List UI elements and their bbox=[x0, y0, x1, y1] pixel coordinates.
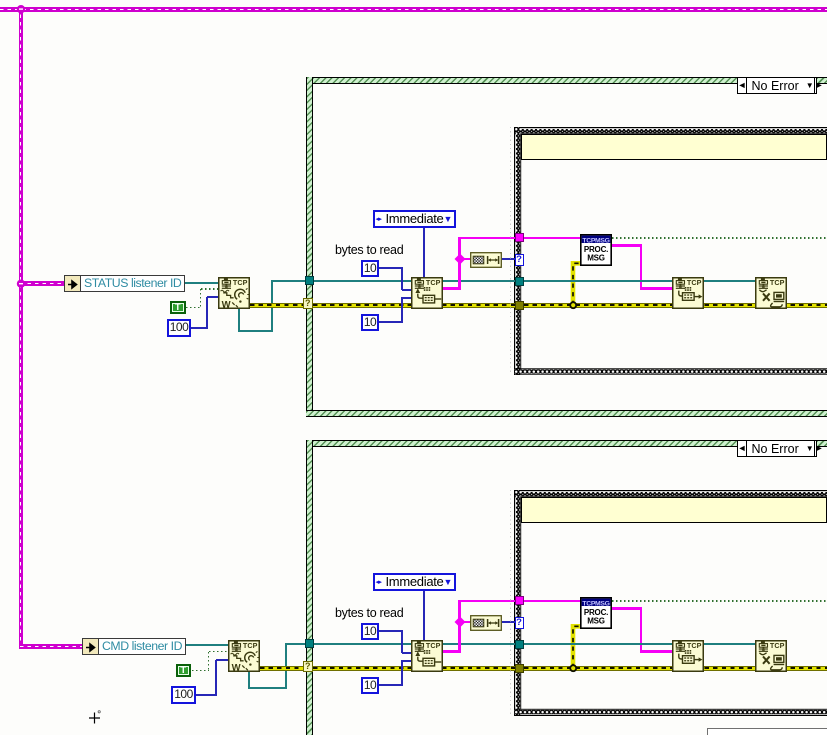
wire: blue from Immediate 2 down to TCP Read R2 bbox=[423, 591, 425, 640]
wire: teal refnum STATUS label to TCP Wait On Listener U1 bbox=[185, 282, 218, 284]
wire: teal connection ID out of U1 into case 1 bbox=[238, 308, 240, 332]
case selector label "No Error" bbox=[737, 440, 817, 457]
wire: teal across loop 1 bbox=[524, 280, 770, 282]
junction: error node in loop 1 bbox=[569, 301, 578, 310]
constant: numeric 10 b bbox=[361, 314, 379, 331]
selector terminal [?] of case 1 bbox=[303, 298, 314, 310]
op: TCP Read R2 bbox=[411, 640, 443, 672]
op: String Length S1 bbox=[470, 252, 502, 268]
wire: magenta string out of R1 up to loop 1 tunnel bbox=[443, 287, 461, 290]
while loop 1 yellow free-label banner bbox=[521, 134, 827, 161]
tunnel: teal on loop 2 bbox=[515, 640, 524, 649]
wire: dotted boolean out of M2 to right edge bbox=[612, 600, 827, 602]
terminal: STATUS listener ID bbox=[64, 275, 185, 292]
constant: enum ring Immediate (top) bbox=[373, 210, 457, 229]
page boundary dotted guide (loop 2) bbox=[510, 490, 511, 715]
tunnel: magenta on loop 2 bbox=[515, 596, 524, 605]
wire: teal connection ID across case 2 bbox=[314, 643, 515, 645]
wire: blue 10b to R1 bbox=[379, 321, 403, 323]
wire: error out of U2 to case 2 selector bbox=[260, 666, 306, 671]
subVI: TCPMSG PROC MSG M1 bbox=[580, 234, 612, 266]
op: TCP Wait On Listener U1 bbox=[218, 277, 250, 309]
wire: dotted boolean out of M1 to right edge bbox=[612, 237, 827, 239]
wire: blue from Immediate 1 down to TCP Read R1 bbox=[423, 228, 425, 278]
junction on bus at top-left bbox=[16, 4, 26, 14]
constant: boolean T2 (TRUE) bbox=[176, 664, 192, 677]
wire: error across case 2 bbox=[313, 666, 515, 671]
wire: dotted boolean from T1 to U1 bbox=[186, 307, 201, 309]
op: TCP Read R1 bbox=[411, 277, 443, 309]
op: TCP Write W2 bbox=[672, 640, 704, 672]
cursor: wiring tool crosshair bbox=[85, 707, 105, 727]
op: TCP Wait On Listener U2 bbox=[228, 640, 260, 672]
wire: blue 10a to R1 bbox=[379, 267, 403, 269]
op: TCP Close Connection X1 bbox=[755, 277, 787, 309]
constant: numeric 100 (bottom) bbox=[171, 686, 196, 704]
case structure 2 (No Error, CMD) top border bbox=[306, 440, 827, 447]
wire: error across case 1 bbox=[313, 303, 515, 308]
free label: bytes to read (top) bbox=[335, 243, 415, 257]
wire: error out of U1 to case 1 selector bbox=[250, 303, 307, 308]
junction: error node in loop 2 bbox=[569, 664, 578, 673]
partial label box bottom-right bbox=[707, 728, 827, 735]
wire: magenta branch to String Length S2 bbox=[461, 621, 471, 624]
wire: teal across loop 2 bbox=[524, 643, 770, 645]
page boundary dotted guide (loop 1) bbox=[510, 127, 511, 375]
tunnel: olive error on loop 2 bbox=[515, 664, 524, 673]
case structure 1 (No Error, STATUS) bottom border bbox=[306, 410, 827, 417]
wire: magenta bus elbow to CMD listener ID bbox=[20, 644, 82, 649]
case structure 1 (No Error, STATUS) left border bbox=[306, 77, 313, 417]
op: TCP Write W1 bbox=[672, 277, 704, 309]
constant: numeric 10 c bbox=[361, 623, 379, 640]
wire: magenta string M2 to TCP Write W2 bbox=[612, 607, 642, 610]
wire: teal refnum CMD label to TCP Wait On Listener U2 bbox=[186, 644, 228, 646]
wire: magenta bus branch to STATUS listener ID bbox=[20, 281, 64, 286]
wire: magenta string out of R2 up to loop 2 tunnel bbox=[443, 650, 461, 653]
tunnel: teal on case 2 bbox=[305, 639, 314, 648]
wire: teal connection ID out of U2 into case 2 bbox=[248, 671, 250, 689]
wire: error across loop 2 bbox=[524, 666, 827, 671]
junction on bus at STATUS branch bbox=[16, 279, 26, 289]
subVI: TCPMSG PROC MSG M2 bbox=[580, 597, 612, 629]
selector terminal [?] of case 2 bbox=[303, 661, 314, 673]
op: String Length S2 bbox=[470, 615, 502, 631]
wire: blue String Length S2 to case selector of loop 2 bbox=[502, 621, 515, 623]
junction: magenta diamond node 1 bbox=[454, 253, 466, 265]
wire: error branch up to M2 bbox=[568, 621, 582, 671]
wire: magenta tunnel to PROC MSG subVI M1 bbox=[524, 237, 581, 240]
constant: enum ring Immediate (bottom) bbox=[373, 573, 457, 592]
wire: magenta branch to String Length S1 bbox=[461, 258, 471, 261]
terminal: CMD listener ID bbox=[82, 638, 186, 655]
free label: bytes to read (bottom) bbox=[335, 606, 415, 620]
case structure 1 (No Error, STATUS) top border bbox=[306, 77, 827, 84]
while loop 2 border bbox=[514, 490, 827, 716]
selector terminal [?] blue of loop 2 bbox=[515, 617, 524, 629]
wire: magenta cluster bus vertical left side bbox=[19, 7, 24, 649]
wire: blue timeout 100 to U1 bbox=[191, 327, 208, 329]
case selector label "No Error" bbox=[737, 77, 817, 94]
while loop 1 border bbox=[514, 127, 827, 376]
constant: numeric 10 d bbox=[361, 677, 379, 694]
constant: numeric 100 (top) bbox=[167, 319, 191, 337]
case structure 2 (No Error, CMD) left border bbox=[306, 440, 313, 735]
wire: error across loop 1 bbox=[524, 303, 827, 308]
wire: magenta string M1 to TCP Write W1 bbox=[612, 244, 642, 247]
junction: magenta diamond node 2 bbox=[454, 616, 466, 628]
svg symbol definitions bbox=[0, 0, 1, 1]
selector terminal [?] blue of loop 1 bbox=[515, 254, 524, 266]
tunnel: teal on case 1 bbox=[305, 276, 314, 285]
wire: blue String Length S1 to case selector of loop 1 bbox=[502, 258, 515, 260]
wire: blue timeout 100 to U2 bbox=[196, 694, 217, 696]
wire: magenta tunnel to PROC MSG subVI M2 bbox=[524, 600, 581, 603]
tunnel: magenta on loop 1 bbox=[515, 233, 524, 242]
wire: teal connection ID across case 1 bbox=[314, 280, 515, 282]
wire: dotted boolean from T2 to U2 bbox=[192, 670, 209, 672]
tunnel: teal on loop 1 bbox=[515, 277, 524, 286]
while loop 2 yellow free-label banner bbox=[521, 497, 827, 524]
tunnel: olive error on loop 1 bbox=[515, 301, 524, 310]
wire: blue 10c to R2 bbox=[379, 630, 403, 632]
wire: blue 10d to R2 bbox=[379, 684, 403, 686]
constant: boolean T1 (TRUE) bbox=[170, 301, 186, 314]
op: TCP Close Connection X2 bbox=[755, 640, 787, 672]
wire: error branch up to M1 bbox=[568, 258, 582, 308]
wire: magenta cluster bus horizontal across top bbox=[0, 7, 827, 12]
constant: numeric 10 a bbox=[361, 260, 379, 277]
